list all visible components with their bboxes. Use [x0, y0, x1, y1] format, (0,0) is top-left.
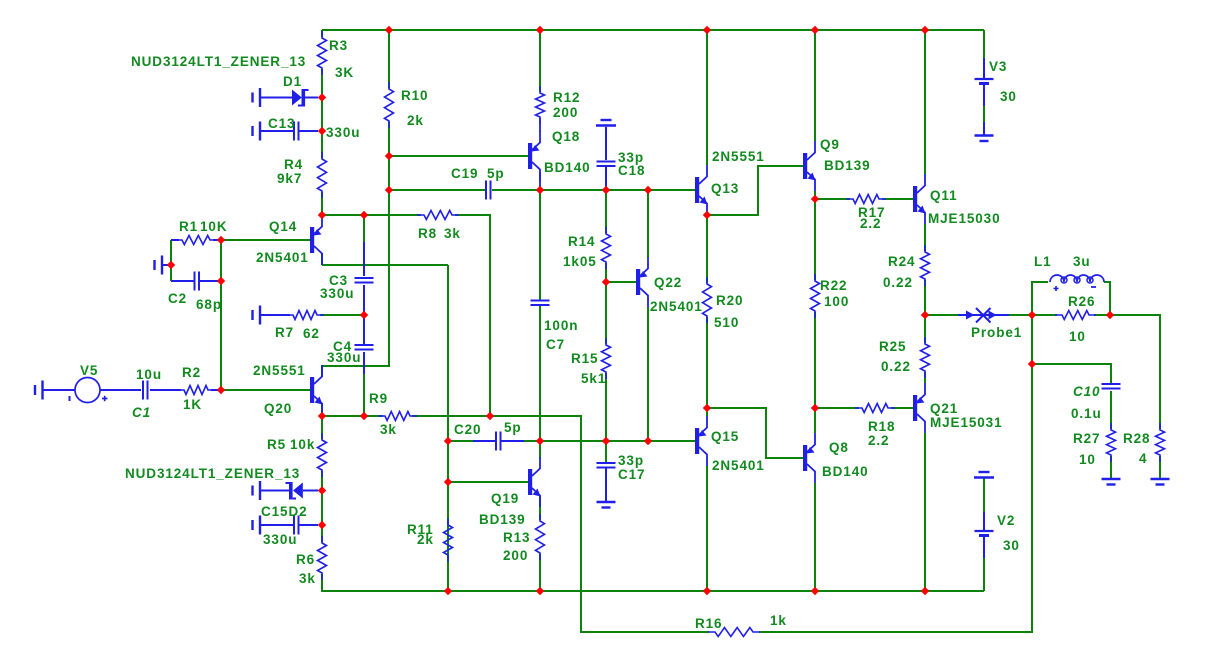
resistor R4 [277, 152, 327, 198]
svg-text:R1: R1 [179, 219, 198, 234]
svg-text:C10: C10 [1073, 384, 1100, 399]
svg-text:510: 510 [714, 315, 739, 330]
wire R3 top lead from rail [321, 30, 323, 37]
ground flipped above C18 [596, 120, 616, 126]
capacitor C1 [132, 367, 162, 420]
wire Q21 collector to bottom rail [924, 433, 926, 591]
svg-text:3K: 3K [335, 65, 354, 80]
svg-text:V3: V3 [989, 59, 1007, 74]
svg-text:Q14: Q14 [269, 219, 297, 234]
svg-text:5k1: 5k1 [581, 371, 606, 386]
svg-text:C2: C2 [168, 291, 187, 306]
svg-text:C19: C19 [451, 166, 478, 181]
svg-text:Q21: Q21 [930, 401, 958, 416]
svg-text:Q11: Q11 [930, 188, 957, 203]
resistor R22 [811, 274, 850, 318]
wire Q20 emitter node line [322, 415, 383, 417]
svg-text:30: 30 [1000, 89, 1017, 104]
wire R10 top lead [388, 30, 390, 88]
wire Q20 emitter stub [321, 403, 323, 416]
svg-text:0.22: 0.22 [881, 359, 911, 374]
capacitor C4 [327, 339, 374, 365]
wire Q18 collector down to node [539, 172, 541, 190]
wire R22 to node y408 [814, 312, 816, 408]
svg-text:Q9: Q9 [820, 137, 840, 152]
wire C1 to R2 [150, 389, 181, 391]
wire R8 right to corner then down to R9 node [455, 215, 490, 416]
wire node to C7 top [539, 190, 541, 300]
svg-text:33p: 33p [618, 453, 644, 468]
svg-text:0.22: 0.22 [883, 275, 913, 290]
svg-text:9k7: 9k7 [277, 171, 302, 186]
resistor R1 [175, 219, 227, 245]
svg-text:R13: R13 [503, 530, 530, 545]
svg-text:BD139: BD139 [824, 158, 871, 173]
wire loop right vertical x221 [220, 240, 222, 390]
wire R6 bottom to bottom rail [322, 574, 984, 591]
wire R2 to Q20 base node [211, 389, 221, 391]
zener diode D2 [261, 482, 318, 500]
svg-text:R24: R24 [888, 254, 915, 269]
wire Q19 emitter to R13 [539, 496, 541, 520]
svg-text:2N5401: 2N5401 [712, 458, 765, 473]
svg-text:MJE15030: MJE15030 [928, 211, 1001, 226]
capacitor C17 [597, 453, 646, 501]
resistor R9 [369, 391, 417, 437]
wire Q22 emitter up to Q13 base line [647, 190, 649, 257]
wire C18 top stub [605, 127, 607, 160]
resistor R28 [1123, 423, 1165, 466]
port input of C13 [253, 122, 261, 141]
wire C20 left lead [448, 440, 495, 442]
svg-text:30: 30 [1003, 538, 1020, 553]
svg-text:4: 4 [1139, 451, 1147, 466]
transistor Q15 2N5401 [695, 416, 765, 473]
label NUD3124LT1_ZENER_13 (bottom) [125, 466, 300, 481]
wire R10 down to Q20 collector line [322, 122, 389, 366]
wire Q20 collector stub [321, 366, 323, 377]
wire V2 top ground stub [983, 478, 985, 512]
svg-text:2.2: 2.2 [868, 433, 889, 448]
capacitor C19 [451, 166, 505, 200]
wire Q11 emitter to R24 [924, 224, 926, 251]
resistor R12 [536, 86, 581, 124]
wire Q22 collector down to C20 line [647, 307, 649, 441]
svg-text:3k: 3k [299, 571, 316, 586]
battery V2 [975, 512, 1020, 558]
svg-text:Probe1: Probe1 [971, 325, 1022, 340]
svg-text:R27: R27 [1073, 431, 1100, 446]
wire node y199 to R17 [815, 198, 850, 200]
wire C19 line to Q13 base [492, 189, 695, 191]
wire output node to probe [925, 314, 958, 316]
wire V5 to C1 [100, 389, 141, 391]
svg-text:2k: 2k [407, 113, 424, 128]
svg-text:100n: 100n [544, 318, 578, 333]
svg-text:R7: R7 [275, 325, 294, 340]
wire Q20 base line [221, 389, 310, 391]
svg-text:R15: R15 [571, 351, 598, 366]
svg-text:10: 10 [1079, 452, 1096, 467]
wire C17 top stub [605, 441, 607, 462]
svg-text:2N5401: 2N5401 [650, 299, 703, 314]
svg-text:10k: 10k [290, 437, 315, 452]
wire x448 vertical [447, 265, 449, 591]
transistor Q20 2N5551 [253, 363, 323, 416]
svg-text:L1: L1 [1034, 254, 1052, 269]
svg-text:BD139: BD139 [479, 512, 526, 527]
svg-text:Q15: Q15 [711, 429, 739, 444]
svg-text:BD140: BD140 [822, 464, 869, 479]
port input of R7 [253, 306, 261, 325]
ground flipped above V2 [974, 472, 994, 478]
svg-text:2N5401: 2N5401 [256, 250, 309, 265]
wire feedback down from C10 node [759, 364, 1032, 632]
svg-text:1k05: 1k05 [563, 254, 597, 269]
resistor R13 [503, 514, 545, 563]
wire R7 right lead [320, 314, 364, 316]
svg-text:R10: R10 [401, 88, 428, 103]
wire C3 to R7 node [363, 285, 365, 315]
svg-text:100: 100 [824, 294, 849, 309]
svg-text:NUD3124LT1_ZENER_13: NUD3124LT1_ZENER_13 [131, 54, 306, 69]
svg-text:C20: C20 [454, 422, 481, 437]
capacitor C15 [261, 504, 318, 547]
svg-text:R20: R20 [716, 293, 743, 308]
wire R20 to Q15 emitter node [706, 317, 708, 416]
svg-text:0.1u: 0.1u [1071, 406, 1102, 421]
wire Q14 collector stub [321, 253, 323, 265]
svg-text:330u: 330u [327, 350, 361, 365]
port input of C15 [253, 516, 261, 535]
svg-text:R8: R8 [418, 226, 437, 241]
svg-text:R3: R3 [329, 38, 348, 53]
wire C10 to R27 [1110, 391, 1112, 429]
svg-text:D1: D1 [283, 74, 302, 89]
wire C4 bottom to emitter line [363, 352, 365, 416]
svg-text:62: 62 [303, 326, 320, 341]
wire V5 port lead [43, 389, 75, 391]
resistor R16 [695, 613, 787, 637]
wire Q15 collector to bottom rail [706, 466, 708, 591]
svg-text:R26: R26 [1068, 294, 1095, 309]
ground of V3 [975, 136, 994, 142]
resistor R8 [417, 211, 461, 242]
resistor R24 [883, 245, 930, 290]
wire C2 right lead [203, 280, 221, 282]
svg-text:2N5551: 2N5551 [712, 149, 765, 164]
svg-text:NUD3124LT1_ZENER_13: NUD3124LT1_ZENER_13 [125, 466, 300, 481]
svg-text:Q18: Q18 [552, 129, 580, 144]
resistor R10 [385, 82, 429, 128]
capacitor C13 [261, 116, 360, 141]
svg-text:330u: 330u [263, 532, 297, 547]
svg-text:Q8: Q8 [829, 440, 849, 455]
transistor Q22 2N5401 [636, 257, 703, 314]
wire R4 to node y215 [321, 192, 323, 215]
wire node line y215 (Q14 emitter / C3 / R8) [322, 214, 421, 216]
wire R9 line right of resistor [412, 415, 490, 417]
svg-text:Q22: Q22 [654, 275, 682, 290]
wire C3 top from node y215 [363, 215, 365, 276]
svg-text:BD140: BD140 [544, 160, 591, 175]
wire Q14 base line [221, 239, 310, 241]
wire C4 top [363, 315, 365, 345]
wire Q14 collector line to x448 [322, 264, 448, 266]
wire node C10 branch [1032, 315, 1111, 384]
wire Q9 emitter to node y199 [814, 191, 816, 199]
wire V+ top rail [322, 29, 984, 31]
port input of C2/R1 loop [155, 256, 163, 275]
wire Q22 base node to R15 [605, 282, 607, 344]
resistor R26 [1055, 294, 1096, 344]
svg-text:V5: V5 [80, 363, 98, 378]
voltage source V5 [70, 363, 108, 403]
svg-text:C7: C7 [546, 337, 565, 352]
svg-text:10u: 10u [136, 367, 162, 382]
svg-text:R16: R16 [695, 616, 722, 631]
resistor R3 [318, 31, 355, 80]
resistor R20 [703, 277, 744, 330]
resistor R27 [1073, 423, 1116, 467]
svg-text:1K: 1K [183, 397, 202, 412]
capacitor C20 [454, 420, 522, 451]
wire Q19 collector gap [539, 441, 541, 458]
capacitor C3 [320, 273, 374, 301]
svg-text:Q20: Q20 [264, 401, 292, 416]
ground of R28 [1151, 479, 1170, 485]
wire R7 port lead [261, 314, 290, 316]
transistor Q14 2N5401 [256, 215, 322, 265]
resistor R5 [267, 433, 327, 477]
svg-text:3u: 3u [1073, 254, 1091, 269]
transistor Q21 MJE15031 [913, 383, 1003, 433]
svg-text:330u: 330u [326, 125, 360, 140]
wire R14 to Q22 base node [605, 263, 607, 282]
svg-text:1k: 1k [770, 613, 787, 628]
ground of C17 [597, 502, 616, 508]
wire L1 loop right [1104, 282, 1110, 315]
wire R5 column [321, 416, 323, 439]
wire V2 bottom to rail corner [983, 558, 985, 591]
wire port to loop node [163, 264, 171, 266]
svg-text:2k: 2k [417, 532, 434, 547]
capacitor C10 [1071, 384, 1121, 421]
wire Q22 base [606, 281, 636, 283]
svg-text:10K: 10K [200, 219, 227, 234]
wire probe to L1 node [1009, 314, 1032, 316]
wire R12 to Q18 emitter [539, 118, 541, 132]
svg-text:R6: R6 [296, 552, 315, 567]
wire Q11 collector to rail [924, 30, 926, 174]
svg-text:R4: R4 [284, 157, 303, 172]
capacitor C7 100n [531, 301, 579, 353]
resistor R2 [177, 365, 215, 412]
capacitor C18 [597, 150, 646, 178]
wire input loop vertical [170, 240, 172, 281]
wire R1 leads [171, 239, 221, 241]
svg-text:V2: V2 [997, 513, 1015, 528]
svg-text:2N5551: 2N5551 [253, 363, 306, 378]
wire Q13 collector to rail [706, 30, 708, 165]
svg-text:C15D2: C15D2 [261, 504, 308, 519]
svg-text:2.2: 2.2 [860, 216, 881, 231]
transistor Q19 BD139 [479, 457, 541, 527]
ground of R27 [1102, 479, 1121, 485]
svg-text:200: 200 [553, 105, 578, 120]
svg-text:68p: 68p [196, 297, 222, 312]
wire Q8 emitter stub up to node [814, 408, 816, 433]
svg-text:3k: 3k [380, 422, 397, 437]
resistor R25 [879, 337, 930, 378]
svg-text:C17: C17 [618, 467, 645, 482]
svg-text:MJE15031: MJE15031 [930, 415, 1003, 430]
wire C18 node to R14 [605, 190, 607, 233]
wire R12 top lead from rail [539, 30, 541, 92]
resistor R11 [407, 518, 453, 562]
svg-text:3k: 3k [444, 226, 461, 241]
svg-text:200: 200 [503, 548, 528, 563]
inductor L1 [1034, 254, 1104, 291]
wire Q13 emitter to R20 [706, 215, 708, 283]
battery V3 [975, 58, 1017, 135]
svg-text:5p: 5p [487, 166, 505, 181]
svg-text:10: 10 [1069, 329, 1086, 344]
wire R3 to R4 column (D1/C13 taps) [321, 69, 323, 158]
wire output to R28 branch [1110, 315, 1160, 429]
wire Q8 collector to bottom rail [814, 483, 816, 591]
svg-text:C18: C18 [618, 163, 645, 178]
wire Q15 emitter node to Q8 base [707, 408, 803, 458]
current probe Probe1 [958, 308, 1022, 340]
svg-text:330u: 330u [320, 286, 354, 301]
svg-text:R22: R22 [820, 278, 847, 293]
wire R27 bottom to ground [1110, 456, 1112, 479]
wire R25 to Q21 emitter [924, 372, 926, 383]
resistor R6 [296, 536, 327, 586]
svg-text:Q19: Q19 [491, 491, 519, 506]
wire R28 bottom to ground [1159, 456, 1161, 479]
svg-text:R12: R12 [553, 90, 580, 105]
svg-text:R18: R18 [868, 419, 895, 434]
wire C19 line left of cap [389, 189, 485, 191]
resistor R17 [846, 195, 886, 232]
transistor Q8 BD140 [803, 433, 869, 483]
svg-text:R25: R25 [879, 339, 906, 354]
port input of D2 [253, 481, 261, 500]
svg-text:C1: C1 [132, 405, 151, 420]
resistor R18 [855, 404, 895, 449]
svg-text:5p: 5p [504, 420, 522, 435]
transistor Q11 MJE15030 [913, 174, 1001, 226]
svg-text:C13: C13 [268, 116, 295, 131]
svg-text:Q13: Q13 [711, 181, 739, 196]
resistor R7 [275, 311, 324, 342]
wire C18 bottom stub [605, 166, 607, 190]
port input of V5 [35, 381, 43, 400]
transistor Q18 BD140 [528, 129, 591, 181]
svg-text:R5: R5 [267, 437, 286, 452]
wire R26 left lead [1032, 314, 1057, 316]
wire C20 line to Q15 base [502, 440, 696, 442]
wire Q9 emitter node down to R22 [814, 199, 816, 280]
svg-text:R14: R14 [568, 234, 595, 249]
wire Q13 emitter node to Q9 base [707, 166, 803, 215]
svg-text:R9: R9 [369, 391, 388, 406]
wire R26 right lead [1094, 314, 1110, 316]
transistor Q13 2N5551 [695, 149, 765, 215]
wire R17 to Q11 base [882, 198, 913, 200]
svg-text:R28: R28 [1123, 431, 1150, 446]
wire Q19 base line [448, 481, 528, 483]
wire L1 loop left [1032, 282, 1048, 315]
wire R13 to bottom rail [539, 554, 541, 591]
wire R15 to C20 line [605, 373, 607, 441]
svg-text:R2: R2 [182, 365, 201, 380]
zener diode D1 [261, 74, 318, 107]
wire node y408 to R18 [815, 407, 859, 409]
capacitor C2 [168, 272, 222, 313]
port input of D1 [253, 88, 261, 107]
wire R18 to Q21 base [891, 407, 913, 409]
wire V3 drop from rail [983, 30, 985, 58]
wire Q9 collector to rail [814, 30, 816, 141]
wire output node to R25 [924, 315, 926, 343]
transistor Q9 BD139 [803, 137, 871, 191]
wire R5 to D2/C15 taps to R6 [321, 471, 323, 542]
wire R16 left segment [490, 416, 709, 632]
wire R24 to output node [924, 280, 926, 315]
wire Q18 base line y156 [389, 155, 528, 157]
label NUD3124LT1_ZENER_13 (top) [131, 54, 306, 69]
resistor R15 [571, 338, 611, 386]
resistor R14 [563, 227, 611, 269]
wire C7 bottom to C20 line [539, 306, 541, 441]
